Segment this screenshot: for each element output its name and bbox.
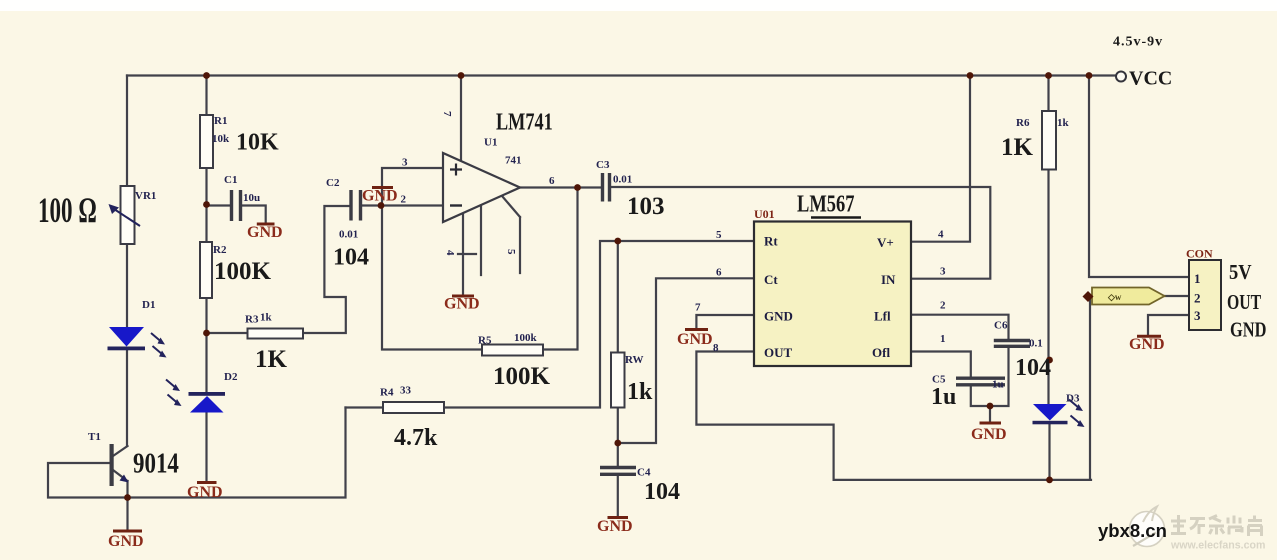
svg-text:6: 6 bbox=[716, 267, 722, 279]
svg-text:1k: 1k bbox=[1057, 117, 1070, 129]
svg-text:103: 103 bbox=[627, 193, 665, 220]
svg-text:3: 3 bbox=[940, 266, 946, 278]
svg-text:741: 741 bbox=[505, 155, 522, 167]
svg-text:Rt: Rt bbox=[764, 234, 778, 249]
svg-text:V+: V+ bbox=[877, 235, 894, 250]
svg-text:GND: GND bbox=[247, 224, 283, 241]
svg-text:4: 4 bbox=[444, 250, 456, 256]
svg-text:10K: 10K bbox=[236, 130, 279, 156]
svg-text:100K: 100K bbox=[493, 363, 551, 390]
svg-text:5V: 5V bbox=[1229, 261, 1252, 284]
svg-text:33: 33 bbox=[400, 385, 412, 397]
svg-text:U1: U1 bbox=[484, 137, 497, 149]
svg-text:1u: 1u bbox=[992, 379, 1004, 391]
svg-text:CON: CON bbox=[1186, 247, 1213, 261]
svg-text:T1: T1 bbox=[88, 431, 101, 443]
svg-text:U01: U01 bbox=[754, 207, 775, 221]
svg-text:C3: C3 bbox=[596, 159, 610, 171]
svg-text:D1: D1 bbox=[142, 299, 155, 311]
svg-text:10k: 10k bbox=[212, 133, 230, 145]
svg-text:0.1: 0.1 bbox=[1029, 338, 1043, 350]
svg-text:C6: C6 bbox=[994, 320, 1008, 332]
svg-text:100k: 100k bbox=[514, 332, 538, 344]
svg-text:ybx8.cn: ybx8.cn bbox=[1098, 520, 1167, 541]
svg-text:4.7k: 4.7k bbox=[394, 425, 438, 451]
svg-text:GND: GND bbox=[362, 188, 398, 205]
svg-text:8: 8 bbox=[713, 342, 719, 354]
svg-text:C1: C1 bbox=[224, 174, 237, 186]
svg-text:2: 2 bbox=[940, 300, 946, 312]
svg-text:GND: GND bbox=[1230, 319, 1266, 342]
svg-text:3: 3 bbox=[1194, 308, 1201, 323]
svg-text:Ct: Ct bbox=[764, 272, 778, 287]
svg-text:R2: R2 bbox=[213, 244, 227, 256]
svg-text:GND: GND bbox=[1129, 336, 1165, 353]
svg-text:GND: GND bbox=[444, 296, 480, 313]
svg-text:1: 1 bbox=[1194, 271, 1201, 286]
svg-text:IN: IN bbox=[881, 272, 896, 287]
svg-text:OUT: OUT bbox=[764, 345, 793, 360]
svg-text:GND: GND bbox=[187, 484, 223, 501]
svg-text:GND: GND bbox=[764, 309, 793, 324]
svg-text:D3: D3 bbox=[1066, 393, 1080, 405]
svg-text:104: 104 bbox=[1015, 355, 1051, 381]
svg-text:R5: R5 bbox=[478, 335, 492, 347]
svg-text:0.01: 0.01 bbox=[613, 174, 632, 186]
svg-text:100 Ω: 100 Ω bbox=[38, 190, 97, 230]
svg-text:104: 104 bbox=[333, 245, 369, 271]
svg-text:GND: GND bbox=[597, 518, 633, 535]
svg-text:D2: D2 bbox=[224, 371, 238, 383]
svg-text:VCC: VCC bbox=[1129, 68, 1172, 90]
svg-text:10u: 10u bbox=[243, 192, 260, 204]
svg-text:1k: 1k bbox=[260, 312, 273, 324]
svg-text:C4: C4 bbox=[637, 467, 651, 479]
svg-text:5: 5 bbox=[716, 229, 722, 241]
svg-text:www.elecfans.com: www.elecfans.com bbox=[1170, 540, 1265, 552]
svg-text:R3: R3 bbox=[245, 314, 259, 326]
svg-text:1K: 1K bbox=[255, 346, 288, 373]
svg-text:6: 6 bbox=[549, 175, 555, 187]
svg-text:1K: 1K bbox=[1001, 134, 1034, 161]
svg-text:9014: 9014 bbox=[133, 447, 179, 479]
svg-text:7: 7 bbox=[695, 302, 701, 314]
svg-text:104: 104 bbox=[644, 479, 680, 505]
svg-text:1k: 1k bbox=[627, 379, 653, 405]
svg-text:OUT: OUT bbox=[1227, 291, 1262, 315]
svg-text:◇w: ◇w bbox=[1107, 292, 1122, 302]
svg-text:GND: GND bbox=[677, 331, 713, 348]
svg-text:5: 5 bbox=[505, 249, 517, 255]
svg-text:1u: 1u bbox=[931, 384, 956, 410]
svg-text:Lfl: Lfl bbox=[874, 309, 891, 324]
svg-text:3: 3 bbox=[402, 157, 408, 169]
svg-text:4: 4 bbox=[938, 229, 944, 241]
svg-text:0.01: 0.01 bbox=[339, 229, 358, 241]
svg-text:Ofl: Ofl bbox=[872, 345, 890, 360]
svg-text:RW: RW bbox=[625, 354, 644, 366]
svg-text:LM741: LM741 bbox=[496, 108, 553, 135]
svg-text:GND: GND bbox=[971, 426, 1007, 443]
svg-text:C5: C5 bbox=[932, 374, 946, 386]
svg-text:100K: 100K bbox=[214, 258, 272, 285]
svg-text:2: 2 bbox=[401, 194, 407, 206]
svg-text:VR1: VR1 bbox=[135, 190, 156, 202]
svg-text:1: 1 bbox=[940, 333, 946, 345]
svg-text:LM567: LM567 bbox=[797, 190, 855, 217]
svg-text:R1: R1 bbox=[214, 115, 227, 127]
svg-text:7: 7 bbox=[441, 111, 453, 117]
svg-text:4.5v-9v: 4.5v-9v bbox=[1113, 35, 1163, 50]
svg-text:C2: C2 bbox=[326, 177, 340, 189]
svg-text:R6: R6 bbox=[1016, 117, 1030, 129]
svg-text:2: 2 bbox=[1194, 291, 1201, 306]
svg-text:R4: R4 bbox=[380, 387, 394, 399]
svg-text:GND: GND bbox=[108, 533, 144, 550]
